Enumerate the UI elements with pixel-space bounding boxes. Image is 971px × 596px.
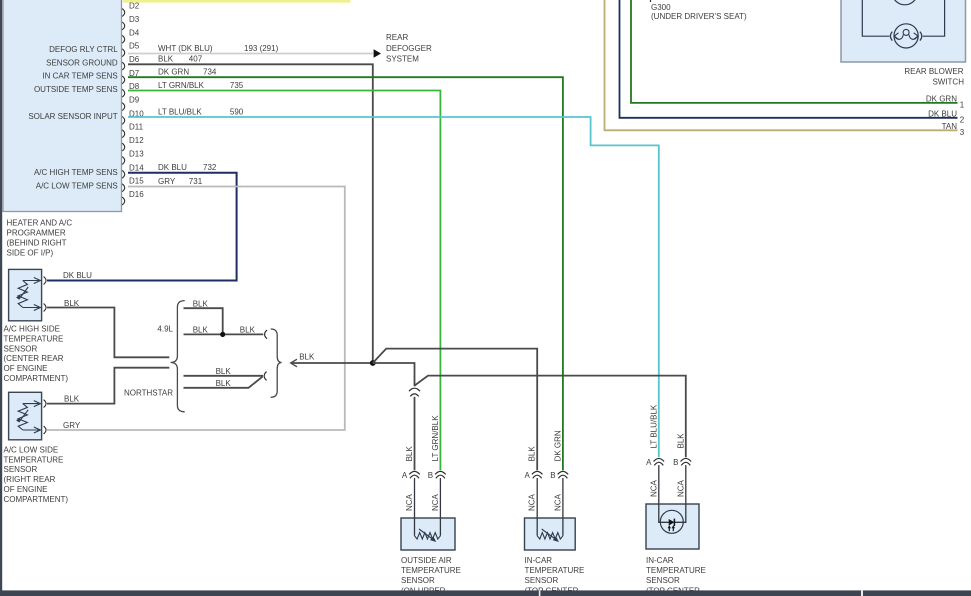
wire BLK branch to in-car sensor 2 B [415, 376, 686, 458]
svg-text:TEMPERATURE: TEMPERATURE [4, 455, 64, 464]
pin D14 terminal [122, 163, 144, 178]
wire BLK junction down branch [373, 363, 415, 386]
svg-text:B: B [673, 458, 678, 467]
svg-text:LT GRN/BLK: LT GRN/BLK [158, 81, 205, 90]
svg-text:TEMPERATURE: TEMPERATURE [646, 566, 706, 575]
svg-text:D12: D12 [129, 136, 144, 145]
pin D8 terminal [122, 82, 140, 97]
svg-text:REAR BLOWER: REAR BLOWER [904, 67, 963, 76]
svg-text:D9: D9 [129, 96, 140, 105]
svg-text:D3: D3 [129, 15, 140, 24]
outside air temp sensor pin A connector [402, 471, 420, 511]
outside air temp sensor body [401, 518, 455, 550]
svg-text:(CENTER REAR: (CENTER REAR [4, 354, 64, 363]
wire BLK low side to splice [47, 368, 169, 404]
label OUTSIDE TEMP SENS [34, 85, 118, 94]
pin D5 terminal [122, 42, 140, 57]
svg-text:NCA: NCA [405, 493, 414, 511]
svg-text:D6: D6 [129, 55, 140, 64]
svg-text:2: 2 [960, 116, 965, 125]
svg-text:PROGRAMMER: PROGRAMMER [7, 228, 66, 237]
splice junction dot [220, 332, 225, 337]
svg-text:BLK: BLK [676, 433, 685, 449]
svg-text:REAR: REAR [386, 33, 408, 42]
svg-text:SENSOR: SENSOR [4, 344, 38, 353]
splice branch 4 BLK [184, 377, 263, 388]
svg-text:BLK: BLK [158, 55, 174, 64]
in-car temp sensor leads [537, 478, 563, 518]
svg-text:B: B [550, 471, 555, 480]
svg-text:B: B [428, 471, 433, 480]
svg-text:TEMPERATURE: TEMPERATURE [401, 566, 461, 575]
svg-text:BLK: BLK [240, 326, 256, 335]
wire D5 WHT (DK BLU) 193 [128, 44, 373, 54]
pin D10 terminal [122, 109, 144, 124]
label in-car temp sensor caption [525, 556, 585, 595]
svg-text:BLK: BLK [193, 299, 209, 308]
label outside air temp sensor wire colors [405, 415, 440, 462]
bottom scrollbar [0, 590, 971, 596]
arrow to rear defogger [374, 49, 381, 58]
label 4.9L [157, 325, 173, 334]
in-car temp sensor photo pin A connector [646, 458, 664, 497]
wire BLK connector to outside air sensor A [414, 397, 416, 470]
svg-text:A/C LOW SIDE: A/C LOW SIDE [4, 445, 59, 454]
svg-text:TEMPERATURE: TEMPERATURE [525, 566, 585, 575]
svg-text:OUTSIDE AIR: OUTSIDE AIR [401, 556, 452, 565]
svg-text:D4: D4 [129, 28, 140, 37]
label GRY at sensor [63, 421, 81, 430]
pin D12 terminal [122, 136, 144, 151]
svg-text:NCA: NCA [528, 493, 537, 511]
in-car temp sensor photo leads [659, 465, 686, 504]
svg-text:731: 731 [189, 177, 203, 186]
label A/C HIGH TEMP SENS [34, 168, 118, 177]
svg-text:TAN: TAN [942, 122, 958, 131]
svg-text:TEMPERATURE: TEMPERATURE [4, 334, 64, 343]
svg-text:NCA: NCA [649, 479, 658, 497]
svg-text:DEFOG RLY CTRL: DEFOG RLY CTRL [49, 45, 118, 54]
wire D10 LT BLU/BLK 590 [128, 107, 659, 457]
svg-text:OF ENGINE: OF ENGINE [4, 485, 48, 494]
wire D8 LT GRN/BLK 735 [128, 81, 440, 470]
wire D6 BLK 407 [128, 55, 373, 361]
connector C1 HVAC programmer body [3, 0, 122, 212]
pin D16 terminal [122, 190, 144, 205]
label BLK high side [64, 299, 80, 308]
svg-text:NCA: NCA [676, 479, 685, 497]
svg-text:D15: D15 [129, 177, 144, 186]
junction node S (dot) [370, 360, 376, 366]
svg-text:HEATER AND A/C: HEATER AND A/C [7, 218, 73, 227]
ground G300 stub [650, 0, 652, 2]
wire DK BLU blower pin 2 [620, 0, 965, 125]
wire DK GRN blower pin 1 [631, 0, 965, 110]
label in-car temp sensor photo caption [646, 556, 706, 595]
svg-text:LT BLU/BLK: LT BLU/BLK [158, 107, 202, 116]
svg-text:DK BLU: DK BLU [63, 271, 92, 280]
svg-text:A: A [402, 471, 408, 480]
wire D14 DK BLU 732 [47, 163, 237, 280]
label A/C LOW TEMP SENS [36, 181, 118, 190]
svg-text:G300: G300 [651, 3, 671, 12]
label HEATER AND A/C PROGRAMMER [7, 218, 73, 257]
pin D11 terminal [122, 123, 143, 138]
A/C low side temp sensor body [9, 392, 46, 440]
svg-text:(UNDER DRIVER'S SEAT): (UNDER DRIVER'S SEAT) [651, 12, 747, 21]
in-line connector on BLK drop [409, 388, 420, 396]
svg-text:COMPARTMENT): COMPARTMENT) [4, 495, 69, 504]
svg-text:BLK: BLK [216, 367, 232, 376]
svg-text:(BEHIND RIGHT: (BEHIND RIGHT [7, 238, 67, 247]
wire BLK splice to junction [291, 352, 373, 366]
splice branch 1 BLK [184, 299, 223, 333]
svg-text:590: 590 [230, 107, 244, 116]
blower switch top lamp (cut off) [892, 0, 918, 5]
svg-text:BLK: BLK [193, 326, 209, 335]
outside air temp sensor leads [415, 478, 441, 518]
svg-text:SENSOR: SENSOR [646, 576, 680, 585]
svg-text:735: 735 [230, 81, 244, 90]
pin D7 terminal [122, 69, 140, 84]
label in-car temp sensor wire colors [528, 430, 563, 461]
svg-text:DK GRN: DK GRN [926, 95, 957, 104]
label SOLAR SENSOR INPUT [28, 112, 117, 121]
label A/C high side temp sensor caption [4, 325, 69, 384]
splice branch 2 end connector [265, 330, 267, 339]
splice branch 2 BLK [184, 326, 264, 335]
svg-text:734: 734 [203, 68, 217, 77]
svg-text:BLK: BLK [216, 379, 232, 388]
label in-car temp sensor photo wire colors [649, 404, 685, 448]
in-car temp sensor body [525, 518, 576, 550]
in-car temp sensor pin A connector [525, 471, 543, 511]
splice right brace [271, 329, 282, 397]
splice left brace [171, 301, 185, 412]
wire D7 DK GRN 734 [128, 68, 563, 471]
label DK BLU at sensor [63, 271, 92, 280]
svg-text:GRY: GRY [63, 421, 81, 430]
label IN CAR TEMP SENS [42, 72, 117, 81]
svg-text:IN CAR TEMP SENS: IN CAR TEMP SENS [42, 72, 117, 81]
svg-text:SOLAR SENSOR INPUT: SOLAR SENSOR INPUT [28, 112, 117, 121]
svg-text:SIDE OF I/P): SIDE OF I/P) [7, 248, 54, 257]
svg-text:BLK: BLK [405, 446, 414, 462]
splice branch 3/4 end connector [264, 372, 266, 381]
svg-text:NCA: NCA [431, 493, 440, 511]
svg-text:(RIGHT REAR: (RIGHT REAR [4, 475, 56, 484]
svg-text:LT BLU/BLK: LT BLU/BLK [649, 404, 658, 448]
svg-text:SENSOR GROUND: SENSOR GROUND [46, 59, 118, 68]
label REAR BLOWER SWITCH [904, 67, 964, 86]
svg-text:GRY: GRY [158, 177, 176, 186]
svg-text:DK BLU: DK BLU [928, 110, 957, 119]
label NORTHSTAR [124, 388, 173, 397]
svg-text:D13: D13 [129, 150, 144, 159]
label BLK low side [64, 395, 80, 404]
svg-text:BLK: BLK [64, 395, 80, 404]
svg-text:4.9L: 4.9L [157, 325, 173, 334]
svg-text:A: A [525, 471, 531, 480]
blower switch internal wires [862, 0, 944, 36]
svg-text:D11: D11 [129, 123, 144, 132]
label SENSOR GROUND [46, 59, 118, 68]
pin D3 terminal [122, 15, 140, 30]
svg-text:WHT (DK BLU): WHT (DK BLU) [158, 44, 213, 53]
label outside air temp sensor caption [401, 556, 461, 595]
svg-text:OF ENGINE: OF ENGINE [4, 364, 48, 373]
svg-text:3: 3 [960, 128, 965, 137]
svg-text:BLK: BLK [299, 352, 315, 361]
svg-text:SENSOR: SENSOR [4, 465, 38, 474]
svg-text:DK GRN: DK GRN [553, 430, 562, 461]
wire YEL (D1) [123, 0, 350, 3]
svg-text:OUTSIDE TEMP SENS: OUTSIDE TEMP SENS [34, 85, 118, 94]
outside air temp sensor pin B connector [428, 471, 446, 511]
svg-text:DEFOGGER: DEFOGGER [386, 44, 432, 53]
app left border [0, 0, 2, 596]
pin D15 terminal [122, 177, 144, 192]
svg-text:A: A [646, 458, 652, 467]
svg-text:193 (291): 193 (291) [244, 44, 279, 53]
in-car temp sensor photo body [646, 504, 699, 549]
svg-text:D16: D16 [129, 190, 144, 199]
svg-text:A/C HIGH TEMP SENS: A/C HIGH TEMP SENS [34, 168, 118, 177]
pin D13 terminal [122, 150, 144, 165]
pin D2 terminal [122, 2, 140, 17]
wire BLK junction to in-car sensor A [373, 349, 537, 471]
A/C high side temp sensor body [9, 269, 46, 320]
label A/C low side temp sensor caption [4, 445, 69, 504]
in-car temp sensor pin B connector [550, 471, 568, 511]
wire D15 GRY 731 [47, 177, 345, 430]
svg-text:732: 732 [203, 163, 217, 172]
svg-text:D14: D14 [129, 163, 144, 172]
svg-text:IN-CAR: IN-CAR [525, 556, 553, 565]
svg-text:A/C LOW TEMP SENS: A/C LOW TEMP SENS [36, 181, 118, 190]
svg-text:DK BLU: DK BLU [158, 163, 187, 172]
wire BLK high side to splice [47, 308, 169, 358]
svg-text:COMPARTMENT): COMPARTMENT) [4, 374, 69, 383]
svg-text:NCA: NCA [553, 493, 562, 511]
blower motor M [890, 24, 921, 48]
svg-text:407: 407 [189, 55, 203, 64]
svg-text:D2: D2 [129, 2, 140, 11]
rear blower switch body [841, 0, 966, 62]
svg-text:DK GRN: DK GRN [158, 68, 189, 77]
svg-text:SENSOR: SENSOR [401, 576, 435, 585]
svg-text:LT GRN/BLK: LT GRN/BLK [431, 415, 440, 462]
svg-text:NORTHSTAR: NORTHSTAR [124, 388, 173, 397]
label G300 [651, 3, 747, 21]
svg-text:1: 1 [960, 101, 965, 110]
svg-text:D5: D5 [129, 42, 140, 51]
svg-text:SYSTEM: SYSTEM [386, 54, 419, 63]
svg-text:BLK: BLK [528, 446, 537, 462]
pin D6 terminal [122, 55, 140, 70]
svg-text:SENSOR: SENSOR [525, 576, 559, 585]
pin D9 terminal [122, 96, 140, 111]
svg-text:SWITCH: SWITCH [932, 78, 964, 87]
svg-text:IN-CAR: IN-CAR [646, 556, 674, 565]
svg-text:A/C HIGH SIDE: A/C HIGH SIDE [4, 325, 60, 334]
splice branch 3 BLK [184, 367, 264, 376]
label REAR DEFOGGER SYSTEM [386, 33, 432, 63]
label DEFOG RLY CTRL [49, 45, 118, 54]
pin D4 terminal [122, 28, 140, 43]
in-car temp sensor photo pin B connector [673, 458, 691, 497]
wire TAN blower pin 3 [605, 0, 965, 137]
